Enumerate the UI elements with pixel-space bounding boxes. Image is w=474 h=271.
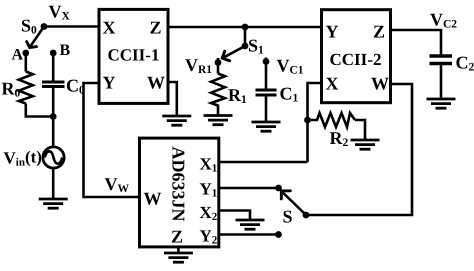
svg-text:S0: S0 (21, 16, 37, 37)
wire CCII-2 X pin to R2 node (308, 83, 322, 120)
resistor R2 (308, 113, 356, 127)
ground on AD633 X2 (236, 220, 265, 229)
op block AD633JN (140, 138, 219, 247)
svg-text:R0: R0 (2, 79, 21, 100)
wire R2 right side to ground (355, 120, 365, 140)
ground below AD633 Z (164, 253, 193, 262)
svg-text:R2: R2 (330, 128, 349, 149)
resistor R1 (211, 74, 225, 110)
switch S0 (27, 27, 44, 48)
svg-text:AD633JN: AD633JN (169, 147, 189, 222)
wire node B to C0 top (52, 53, 55, 82)
node V_R1 dot (215, 59, 222, 66)
svg-text:X: X (103, 18, 116, 38)
node Y1 throw dot (275, 185, 282, 192)
node S pivot dot (303, 212, 310, 219)
svg-text:W: W (147, 73, 165, 93)
ground below C1 (252, 122, 281, 131)
svg-text:Y: Y (103, 73, 116, 93)
svg-text:X2: X2 (200, 203, 218, 223)
wire R0 bottom to junction (26, 104, 53, 117)
svg-text:VC2: VC2 (430, 10, 457, 31)
node B dot (50, 50, 57, 57)
svg-text:C2: C2 (456, 53, 474, 74)
junction R0/C0 bottom (50, 113, 57, 120)
ground below source Vin (39, 199, 68, 208)
svg-text:C1: C1 (280, 84, 299, 105)
wire C1 bottom to ground (265, 97, 268, 123)
svg-text:Y: Y (326, 22, 339, 42)
resistor R0 (19, 72, 33, 104)
wire source Vin bottom to ground (52, 170, 55, 200)
wire R2 node down to X1 wire (306, 120, 309, 162)
wire S1 stub from Z wire junction (244, 27, 247, 46)
svg-text:A: A (12, 47, 24, 64)
node V_X dot (S0 pivot) (41, 23, 48, 30)
switch S1 (222, 46, 245, 61)
svg-text:Vin(t): Vin(t) (4, 148, 42, 169)
svg-text:S: S (283, 207, 293, 227)
wire AD633 Z pin stub to ground (177, 247, 180, 253)
svg-text:VC1: VC1 (277, 56, 304, 77)
svg-text:Z: Z (373, 22, 385, 42)
ground below CCII-1 W (162, 116, 191, 125)
svg-text:X1: X1 (200, 155, 218, 175)
node S1 pivot dot (242, 43, 249, 50)
source Vin(t) (43, 147, 64, 168)
svg-text:C0: C0 (66, 76, 85, 97)
wire AD633 X1 pin to R2 node vertical (219, 161, 308, 164)
svg-text:VX: VX (49, 2, 71, 23)
svg-text:W: W (144, 189, 162, 209)
wire AD633 X2 pin to ground (219, 211, 250, 221)
svg-text:Y2: Y2 (200, 227, 218, 247)
svg-text:B: B (60, 42, 71, 59)
wire node V_R1 stub to R1 top (217, 58, 220, 74)
svg-text:X: X (326, 74, 339, 94)
wire R1 bottom to ground (217, 109, 220, 116)
svg-text:S1: S1 (248, 36, 264, 57)
node V_C1 dot (263, 58, 270, 65)
wire C0 bottom to junction to source Vin (52, 87, 55, 147)
wire AD633 Y1 pin to throw node (219, 187, 279, 190)
svg-text:W: W (371, 74, 389, 94)
wire C2 bottom to ground (440, 65, 443, 99)
wire node V_C1 stub to C1 top (265, 58, 268, 89)
ground below R2 (351, 140, 380, 149)
junction on Z wire above S1 (242, 24, 249, 31)
node R2/X1 dot (304, 117, 311, 124)
svg-text:Z: Z (150, 18, 162, 38)
ground below C2 (427, 99, 456, 108)
wire V_X node to CCII-1 X pin (44, 25, 99, 28)
svg-text:CCII-1: CCII-1 (108, 46, 160, 65)
op block CCII-2 (322, 10, 391, 103)
wire node A to R0 top (24, 53, 27, 72)
svg-text:VW: VW (105, 174, 130, 195)
wire CCII-1 W pin to ground (167, 82, 177, 116)
svg-text:R1: R1 (228, 85, 247, 106)
wire AD633 W pin left and up to CCII-1 Y pin (84, 83, 140, 197)
ground below R1 (204, 116, 233, 125)
wire CCII-1 Z pin to CCII-2 Y pin (167, 26, 321, 29)
capacitor C1 (256, 90, 277, 95)
wire CCII-2 Z pin to node V_C2 and capacitor C2 (390, 30, 441, 56)
capacitor C2 (430, 56, 453, 64)
capacitor C0 (42, 82, 65, 87)
node Y2 throw dot (275, 231, 282, 238)
svg-text:Z: Z (171, 227, 183, 247)
wire CCII-2 W pin right, down and left to switch S pivot (306, 84, 412, 215)
switch S (281, 191, 306, 215)
svg-text:CCII-2: CCII-2 (330, 50, 382, 69)
op block CCII-1 (99, 9, 168, 103)
node A dot (22, 50, 29, 57)
wire AD633 Y2 pin to throw node (219, 233, 279, 236)
svg-text:Y1: Y1 (200, 180, 218, 200)
svg-text:VR1: VR1 (185, 55, 212, 76)
